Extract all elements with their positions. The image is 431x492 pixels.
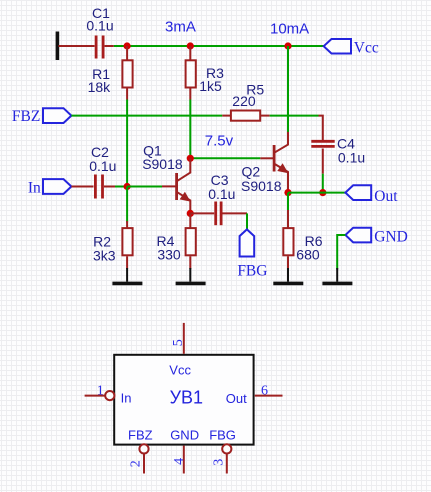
wire 7.5v node to Q2 base <box>190 157 260 159</box>
svg-text:0.1u: 0.1u <box>89 158 116 174</box>
resistor R6 <box>283 210 322 269</box>
svg-text:УВ1: УВ1 <box>170 387 203 407</box>
junction node R3 top <box>187 42 194 49</box>
junction node Q1 base <box>124 183 131 190</box>
svg-text:10mA: 10mA <box>270 21 309 38</box>
junction node C4 bottom <box>319 189 326 196</box>
svg-text:FBZ: FBZ <box>12 108 40 125</box>
svg-text:0.1u: 0.1u <box>208 186 235 202</box>
input terminal bar <box>56 32 60 61</box>
port FBG <box>237 229 267 279</box>
svg-text:3k3: 3k3 <box>93 248 116 264</box>
junction node Vcc/Q2 <box>284 42 291 49</box>
wire R1 bottom to Q1 base node <box>126 100 128 187</box>
wire emitter to Out <box>288 192 345 194</box>
resistor R4 <box>156 213 195 269</box>
svg-text:1: 1 <box>97 384 104 399</box>
svg-text:7.5v: 7.5v <box>205 133 234 150</box>
svg-text:5: 5 <box>171 339 186 346</box>
wire Q2 emitter node to R6 <box>287 193 289 213</box>
svg-text:In: In <box>28 179 41 196</box>
svg-text:330: 330 <box>157 247 181 263</box>
svg-text:4: 4 <box>172 458 187 465</box>
pin 2 <box>129 444 149 473</box>
resistor R3 <box>186 46 225 100</box>
svg-text:Out: Out <box>374 188 398 205</box>
resistor R5 <box>222 82 269 121</box>
port Vcc <box>324 39 379 56</box>
svg-text:680: 680 <box>296 246 320 262</box>
svg-text:6: 6 <box>261 384 268 399</box>
junction node R1 top <box>124 42 131 49</box>
wire C2 to Q1 base node <box>115 186 127 188</box>
capacitor C4 <box>311 116 365 174</box>
resistor R1 <box>88 46 133 100</box>
port FBZ <box>12 108 72 125</box>
svg-text:Out: Out <box>226 391 247 406</box>
svg-text:0.1u: 0.1u <box>86 17 113 33</box>
port In <box>28 179 72 196</box>
svg-text:Vcc: Vcc <box>354 39 379 56</box>
svg-text:FBG: FBG <box>237 262 267 279</box>
junction node Q1 emitter <box>187 210 194 217</box>
capacitor C1 <box>59 5 114 59</box>
ground under R4 <box>176 268 206 283</box>
wire R5 right to Vcc drop <box>270 115 289 117</box>
ground under GND port <box>322 268 352 283</box>
ground under R6 <box>273 268 303 283</box>
svg-text:Vcc: Vcc <box>169 363 191 378</box>
wire FBZ to R5 <box>71 115 222 117</box>
IC box UB1 <box>114 355 253 445</box>
wire base node to Q1 <box>127 186 162 188</box>
svg-text:FBG: FBG <box>209 427 236 442</box>
capacitor C2 <box>71 144 116 199</box>
wire Vcc drop vertical <box>287 46 289 132</box>
pin 6 <box>255 384 283 399</box>
port Out <box>345 185 398 205</box>
svg-text:18k: 18k <box>88 79 112 95</box>
svg-text:GND: GND <box>374 229 408 246</box>
svg-text:0.1u: 0.1u <box>338 149 365 165</box>
junction node Q1 collector <box>187 155 194 162</box>
ground under R2 <box>112 268 142 283</box>
wire Q1 base node to R2 <box>126 187 128 223</box>
pin 4 <box>172 446 187 474</box>
wire R3 bottom to Q1 collector node <box>189 100 191 159</box>
pin 5 <box>171 323 186 354</box>
wire GND port to ground <box>337 235 345 270</box>
wire C4 bottom to out node <box>322 174 324 193</box>
transistor Q2 <box>241 132 288 194</box>
resistor R2 <box>93 221 133 269</box>
port GND <box>345 228 407 246</box>
svg-text:In: In <box>121 391 132 406</box>
wire to C4 top <box>287 115 319 117</box>
svg-text:S9018: S9018 <box>241 178 282 194</box>
wire C3 to FBG <box>246 213 248 230</box>
pin 1 <box>85 384 115 401</box>
svg-text:Q2: Q2 <box>242 164 261 180</box>
svg-text:3mA: 3mA <box>165 18 196 35</box>
svg-text:220: 220 <box>232 93 256 109</box>
svg-text:GND: GND <box>170 427 199 442</box>
pin 3 <box>212 444 232 473</box>
wire Vcc rail <box>114 45 324 47</box>
capacitor C3 <box>190 172 247 225</box>
svg-text:2: 2 <box>129 460 144 467</box>
junction node Q2 emitter <box>284 189 291 196</box>
svg-text:S9018: S9018 <box>142 156 183 172</box>
svg-text:3: 3 <box>212 459 227 466</box>
svg-text:1k5: 1k5 <box>199 78 222 94</box>
transistor Q1 <box>142 143 190 214</box>
svg-text:FBZ: FBZ <box>128 427 153 442</box>
